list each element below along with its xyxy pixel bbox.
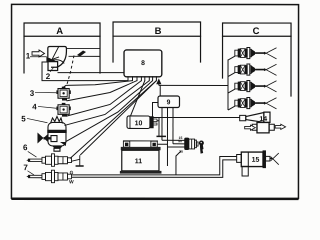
svg-text:9: 9 [167,99,171,106]
svg-text:14: 14 [259,116,267,123]
svg-text:6: 6 [23,143,28,152]
svg-text:4: 4 [32,102,37,111]
svg-text:8: 8 [141,60,145,67]
svg-text:11: 11 [135,158,143,165]
svg-text:1: 1 [26,52,31,61]
svg-text:G: G [70,170,74,176]
svg-text:B: B [155,26,162,37]
svg-text:C: C [253,26,260,37]
svg-text:7: 7 [23,163,28,172]
svg-text:30: 30 [179,150,183,154]
svg-text:2: 2 [46,72,51,81]
svg-text:W: W [69,179,74,185]
svg-text:10: 10 [135,120,143,127]
svg-text:5: 5 [21,114,26,123]
svg-text:3: 3 [30,89,35,98]
svg-text:15: 15 [252,157,260,164]
svg-text:A: A [56,26,63,37]
svg-text:50: 50 [178,139,182,143]
